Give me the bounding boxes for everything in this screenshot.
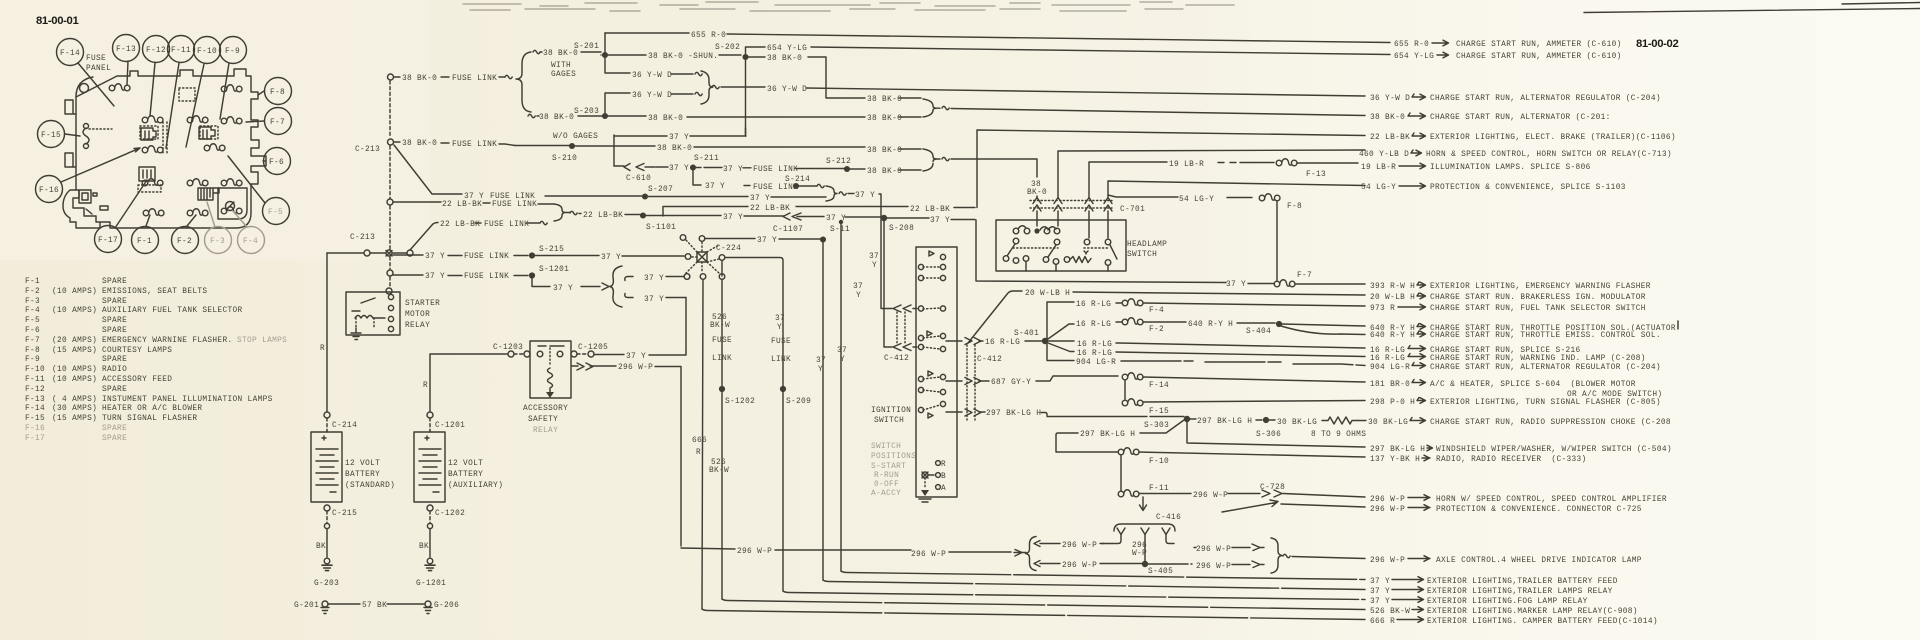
wire F-8 drop to F-7 bbox=[1276, 201, 1278, 281]
svg-text:F-8: F-8 bbox=[1287, 203, 1302, 211]
svg-text:38 BK-0: 38 BK-0 bbox=[648, 115, 683, 123]
connector C-701 bbox=[1030, 201, 1112, 209]
svg-text:38: 38 bbox=[1031, 181, 1041, 189]
wire 22 LB-BK fuse link upper bbox=[393, 202, 554, 204]
svg-text:BK-W: BK-W bbox=[709, 467, 729, 475]
svg-text:EXTERIOR LIGHTING.MARKER LAMP: EXTERIOR LIGHTING.MARKER LAMP RELAY(C-90… bbox=[1427, 608, 1638, 616]
fuse F-11 bbox=[1118, 490, 1139, 497]
wire 37 Y loop under headlamp switch bbox=[976, 220, 1274, 284]
wire 30 BK-LG right bbox=[1358, 420, 1366, 422]
svg-text:PROTECTION & CONVENIENCE. CONN: PROTECTION & CONVENIENCE. CONNECTOR C-72… bbox=[1436, 506, 1642, 514]
svg-text:81-00-02: 81-00-02 bbox=[1636, 38, 1678, 50]
svg-text:S-207: S-207 bbox=[648, 186, 673, 194]
svg-text:EXTERIOR LIGHTING. CAMPER BATT: EXTERIOR LIGHTING. CAMPER BATTERY FEED(C… bbox=[1427, 618, 1658, 626]
svg-text:BK: BK bbox=[419, 543, 429, 551]
svg-text:0-OFF: 0-OFF bbox=[874, 481, 899, 489]
svg-text:37 Y: 37 Y bbox=[669, 165, 689, 173]
svg-text:A/C & HEATER, SPLICE S-604 (B: A/C & HEATER, SPLICE S-604 (BLOWER MOTOR bbox=[1430, 381, 1636, 389]
svg-text:PANEL: PANEL bbox=[86, 65, 111, 73]
svg-text:640 R-Y H: 640 R-Y H bbox=[1370, 332, 1415, 340]
wire 37 Y split lower drop to relay output bbox=[685, 298, 687, 353]
leader F-3 (faded) bbox=[207, 202, 215, 227]
wire 37 Y fuse link S-215 row bbox=[393, 254, 528, 257]
svg-text:F-15: F-15 bbox=[1149, 408, 1169, 416]
splice S-202 bbox=[742, 54, 748, 60]
fuse F-8 bbox=[1259, 194, 1280, 201]
splice S-215 bbox=[529, 252, 535, 258]
svg-text:37 Y: 37 Y bbox=[930, 217, 950, 225]
svg-text:STARTER: STARTER bbox=[405, 300, 440, 308]
svg-text:137 Y-BK H: 137 Y-BK H bbox=[1370, 456, 1420, 464]
circle F-5 bbox=[263, 198, 290, 225]
svg-text:(30 AMPS): (30 AMPS) bbox=[52, 405, 97, 413]
svg-text:ILLUMINATION LAMPS. SPLICE S-8: ILLUMINATION LAMPS. SPLICE S-806 bbox=[1430, 164, 1591, 172]
svg-text:F-9: F-9 bbox=[225, 48, 240, 56]
wire 20 W-LB H bbox=[968, 291, 1365, 343]
svg-text:SPARE: SPARE bbox=[102, 425, 127, 433]
svg-text:SPARE: SPARE bbox=[102, 298, 127, 306]
svg-text:F-7: F-7 bbox=[1297, 272, 1312, 280]
svg-text:BK: BK bbox=[316, 543, 326, 551]
svg-text:S-211: S-211 bbox=[694, 155, 719, 163]
wire 37 Y from C-224 N to S-11 drop bbox=[705, 238, 820, 241]
svg-text:16 R-LG: 16 R-LG bbox=[1370, 355, 1405, 363]
wire BK to ground G-203 bbox=[326, 529, 328, 557]
wire throttle position feed bbox=[1282, 324, 1365, 326]
wire 296 W-P through C-728 bbox=[1139, 493, 1260, 495]
svg-text:526: 526 bbox=[712, 314, 727, 322]
wire F-11 drop to C-416 bbox=[1140, 497, 1147, 511]
svg-text:F-4: F-4 bbox=[25, 307, 40, 315]
svg-text:38 BK-0: 38 BK-0 bbox=[402, 75, 437, 83]
leader F-4 (faded) bbox=[233, 211, 247, 227]
svg-text:37: 37 bbox=[869, 253, 879, 261]
svg-text:81-00-01: 81-00-01 bbox=[36, 15, 78, 27]
wire 296 W-P center drop to S-405 bbox=[1144, 535, 1146, 562]
S-401 branch 4 bbox=[1048, 343, 1365, 357]
svg-text:38 BK-0: 38 BK-0 bbox=[657, 145, 692, 153]
svg-text:F-13: F-13 bbox=[25, 396, 45, 404]
svg-text:FUSE: FUSE bbox=[86, 55, 106, 63]
ground G-1201 bbox=[425, 558, 435, 570]
wire 460 Y-LB D riser bbox=[1058, 150, 1365, 197]
wire BK to ground G-1201 bbox=[429, 529, 431, 557]
terminal C-213 pin 5 bbox=[387, 270, 393, 276]
wire 22 LB-BK fuse link lower bbox=[410, 223, 540, 251]
starter relay ground bbox=[351, 328, 361, 340]
svg-text:F-10: F-10 bbox=[197, 48, 217, 56]
svg-text:37 Y: 37 Y bbox=[644, 275, 664, 283]
svg-text:C-215: C-215 bbox=[332, 510, 357, 518]
splice S-1202 bbox=[719, 386, 725, 392]
panel corner gusset bbox=[76, 77, 93, 97]
svg-text:CHARGE START RUN, SPLICE S-216: CHARGE START RUN, SPLICE S-216 bbox=[1430, 347, 1581, 355]
svg-text:(15 AMPS): (15 AMPS) bbox=[52, 347, 97, 355]
resistor 8 to 9 ohms bbox=[1322, 417, 1358, 424]
svg-text:R: R bbox=[941, 461, 946, 469]
bus wire 526 BK-W marker lamp bbox=[722, 599, 1365, 610]
splice S-212 bbox=[844, 166, 850, 172]
svg-text:C-213: C-213 bbox=[350, 234, 375, 242]
leader F-15 bbox=[65, 134, 80, 136]
dashed row at C-213 pin4 bbox=[327, 252, 364, 254]
svg-text:296 W-P: 296 W-P bbox=[1196, 546, 1231, 554]
svg-text:S-212: S-212 bbox=[826, 158, 851, 166]
svg-text:16 R-LG: 16 R-LG bbox=[1077, 341, 1112, 349]
splice S-405 bbox=[1142, 561, 1148, 567]
svg-text:FUSE LINK: FUSE LINK bbox=[492, 201, 537, 209]
C-224 ring N bbox=[699, 236, 705, 242]
splice S-209 bbox=[780, 386, 786, 392]
svg-text:FUSE: FUSE bbox=[712, 337, 732, 345]
panel interior fuses row 5 bbox=[143, 209, 164, 216]
svg-text:FUSE LINK: FUSE LINK bbox=[452, 75, 497, 83]
svg-text:36 Y-W D: 36 Y-W D bbox=[632, 92, 672, 100]
circle F-4 (faded) bbox=[238, 227, 265, 254]
svg-text:HORN & SPEED CONTROL, HORN SWI: HORN & SPEED CONTROL, HORN SWITCH OR REL… bbox=[1426, 151, 1672, 159]
circle F-13 bbox=[113, 35, 140, 62]
svg-text:AUXILIARY FUEL TANK SELECTOR: AUXILIARY FUEL TANK SELECTOR bbox=[102, 307, 243, 315]
svg-text:F-1: F-1 bbox=[25, 278, 40, 286]
svg-text:HEATER OR A/C BLOWER: HEATER OR A/C BLOWER bbox=[102, 405, 202, 413]
svg-text:904 LG-R: 904 LG-R bbox=[1370, 364, 1410, 372]
svg-text:G-1201: G-1201 bbox=[416, 580, 446, 588]
svg-text:38 BK-0: 38 BK-0 bbox=[539, 114, 574, 122]
svg-text:SPARE: SPARE bbox=[102, 327, 127, 335]
svg-text:F-7: F-7 bbox=[270, 119, 285, 127]
svg-text:38 BK-0: 38 BK-0 bbox=[402, 140, 437, 148]
wire 37 Y jog from S-1201 bbox=[532, 278, 600, 287]
panel interior fuses row 2 bbox=[142, 116, 163, 123]
svg-text:RELAY: RELAY bbox=[533, 427, 558, 435]
S-401 branch 3 bbox=[1048, 341, 1365, 348]
svg-text:OR A/C MODE SWITCH): OR A/C MODE SWITCH) bbox=[1567, 391, 1662, 399]
svg-text:37: 37 bbox=[816, 357, 826, 365]
svg-text:W/O GAGES: W/O GAGES bbox=[553, 133, 598, 141]
svg-text:R: R bbox=[696, 449, 701, 457]
panel relay component 2 bbox=[199, 127, 215, 139]
wire 37 Y to ignition drop bbox=[839, 192, 846, 195]
svg-text:PROTECTION & CONVENIENCE, SPLI: PROTECTION & CONVENIENCE, SPLICE S-1103 bbox=[1430, 184, 1626, 192]
svg-text:S-405: S-405 bbox=[1148, 568, 1173, 576]
svg-text:S-1101: S-1101 bbox=[646, 224, 676, 232]
wire 30 BK-LG to resistor bbox=[1269, 419, 1275, 421]
leader F-5 bbox=[228, 156, 265, 203]
svg-text:20 W-LB H: 20 W-LB H bbox=[1025, 290, 1070, 298]
svg-text:SPARE: SPARE bbox=[102, 278, 127, 286]
svg-text:296 W-P: 296 W-P bbox=[1193, 492, 1228, 500]
svg-text:FUSE LINK: FUSE LINK bbox=[484, 221, 529, 229]
svg-text:526 BK-W: 526 BK-W bbox=[1370, 608, 1410, 616]
wire 37 Y fuse link mid bbox=[696, 167, 706, 169]
svg-text:297 BK-LG H: 297 BK-LG H bbox=[1370, 446, 1425, 454]
wire 38 BK-0 w/o gages bbox=[528, 114, 535, 117]
svg-text:SWITCH: SWITCH bbox=[1127, 251, 1157, 259]
svg-text:F-14: F-14 bbox=[1149, 382, 1169, 390]
svg-text:36 Y-W D: 36 Y-W D bbox=[632, 72, 672, 80]
svg-text:296 W-P: 296 W-P bbox=[737, 548, 772, 556]
C-224 ring E bbox=[719, 255, 725, 261]
svg-text:296 W-P: 296 W-P bbox=[1062, 542, 1097, 550]
svg-text:C-1201: C-1201 bbox=[435, 422, 465, 430]
terminal C-213 pin 6 bbox=[386, 288, 392, 294]
svg-text:R-RUN: R-RUN bbox=[874, 472, 899, 480]
splice S-211 bbox=[690, 164, 696, 170]
svg-text:F-12: F-12 bbox=[146, 47, 166, 55]
svg-text:12 VOLT: 12 VOLT bbox=[345, 460, 380, 468]
svg-text:EXTERIOR LIGHTING, EMERGENCY W: EXTERIOR LIGHTING, EMERGENCY WARNING FLA… bbox=[1430, 283, 1651, 291]
svg-text:FUSE LINK: FUSE LINK bbox=[753, 184, 798, 192]
svg-text:FUSE LINK: FUSE LINK bbox=[464, 273, 509, 281]
svg-text:GAGES: GAGES bbox=[551, 71, 576, 79]
svg-text:F-8: F-8 bbox=[25, 347, 40, 355]
svg-text:MOTOR: MOTOR bbox=[405, 311, 430, 319]
svg-text:F-2: F-2 bbox=[177, 238, 192, 246]
wire 37 Y trailer battery drop bbox=[840, 222, 842, 571]
svg-text:RADIO: RADIO bbox=[102, 366, 127, 374]
svg-text:SWITCH: SWITCH bbox=[871, 443, 901, 451]
svg-text:37 Y: 37 Y bbox=[425, 253, 445, 261]
svg-text:CHARGE START RUN, AMMETER (C-6: CHARGE START RUN, AMMETER (C-610) bbox=[1456, 53, 1622, 61]
svg-text:F-2: F-2 bbox=[25, 288, 40, 296]
circle F-3 (faded) bbox=[205, 227, 232, 254]
leader F-14 bbox=[78, 63, 114, 106]
wire 38 BK-0 from S-212 bbox=[850, 169, 921, 170]
circle F-2 bbox=[172, 227, 199, 254]
brace 2 (38 BK-0 pair collect) bbox=[923, 149, 940, 171]
wire 37 Y split lower bbox=[625, 294, 686, 298]
svg-text:AXLE CONTROL.4 WHEEL DRIVE IND: AXLE CONTROL.4 WHEEL DRIVE INDICATOR LAM… bbox=[1436, 557, 1642, 565]
svg-text:CHARGE START RUN, AMMETER (C-6: CHARGE START RUN, AMMETER (C-610) bbox=[1456, 41, 1622, 49]
splice S-210 bbox=[569, 143, 575, 149]
svg-text:CHARGE START RUN, ALTERNATOR R: CHARGE START RUN, ALTERNATOR REGULATOR (… bbox=[1430, 364, 1661, 372]
wire 54 LG-Y to F-8 bbox=[1108, 195, 1252, 198]
connector C-416 bracket bbox=[1114, 524, 1175, 531]
svg-text:298 P-0 H: 298 P-0 H bbox=[1370, 399, 1415, 407]
splice on 37 Y drop bbox=[820, 236, 826, 242]
svg-text:ACCESSORY: ACCESSORY bbox=[523, 405, 568, 413]
svg-text:F-13: F-13 bbox=[1306, 171, 1326, 179]
splice S-201 bbox=[602, 52, 608, 58]
svg-text:LINK: LINK bbox=[712, 355, 732, 363]
wire 687 GY-Y from ignition bbox=[946, 376, 1118, 381]
fuse F-14 bbox=[1122, 373, 1143, 380]
svg-text:37 Y: 37 Y bbox=[750, 195, 770, 203]
connector C-412 lower dotted bbox=[967, 345, 975, 420]
svg-text:37 Y: 37 Y bbox=[553, 285, 573, 293]
split brace 37 Y bbox=[610, 266, 622, 307]
terminal C-215 bbox=[324, 505, 330, 511]
svg-text:C-412: C-412 bbox=[977, 356, 1002, 364]
svg-text:RELAY: RELAY bbox=[405, 322, 430, 330]
svg-text:G-203: G-203 bbox=[314, 580, 339, 588]
fuse F-4 bbox=[1122, 299, 1143, 306]
S-401 branch 2 to F-2 bbox=[1048, 322, 1122, 339]
svg-text:F-10: F-10 bbox=[25, 366, 45, 374]
wire 640 R-Y H bbox=[1143, 322, 1275, 323]
wire 38 BK-0 -SHUN. bbox=[608, 54, 741, 56]
svg-text:54 LG-Y: 54 LG-Y bbox=[1361, 184, 1396, 192]
svg-text:R: R bbox=[320, 345, 325, 353]
svg-text:640 R-Y H: 640 R-Y H bbox=[1188, 321, 1233, 329]
connector C-412 arrows upper bbox=[893, 305, 917, 312]
circle F-14 bbox=[57, 39, 84, 66]
svg-text:S-303: S-303 bbox=[1144, 422, 1169, 430]
svg-text:654 Y-LG: 654 Y-LG bbox=[767, 45, 807, 53]
svg-text:38 BK-0: 38 BK-0 bbox=[867, 96, 902, 104]
svg-text:C-1203: C-1203 bbox=[493, 344, 523, 352]
svg-text:666 R: 666 R bbox=[1370, 618, 1395, 626]
svg-text:904 LG-R: 904 LG-R bbox=[1076, 359, 1116, 367]
wire 37 Y brace drop to ignition bbox=[881, 308, 892, 310]
C-224 ring S bbox=[700, 274, 706, 280]
leader F-6 bbox=[263, 160, 266, 162]
svg-text:COURTESY LAMPS: COURTESY LAMPS bbox=[102, 347, 172, 355]
splice S-203 bbox=[602, 113, 608, 119]
wire headlamp feed 38 BK-0 bbox=[942, 157, 949, 160]
svg-text:F-17: F-17 bbox=[98, 237, 118, 245]
circle F-10 bbox=[194, 37, 221, 64]
svg-text:687 GY-Y: 687 GY-Y bbox=[991, 379, 1031, 387]
leader F-1 bbox=[146, 215, 150, 226]
ignition position contacts bbox=[922, 472, 928, 478]
bus wire 37 Y fog lamp bbox=[783, 591, 1365, 600]
svg-text:37 Y: 37 Y bbox=[644, 296, 664, 304]
battery 12 volt (standard) bbox=[311, 432, 342, 502]
bus wire 37 Y trailer lamps bbox=[823, 580, 1365, 590]
svg-text:S-404: S-404 bbox=[1246, 328, 1271, 336]
svg-text:37 Y: 37 Y bbox=[626, 353, 646, 361]
wire 296 W-P diagonal to C-725 bbox=[1222, 500, 1365, 512]
top scan artifacts: cut-off print fragments bbox=[463, 2, 1234, 11]
svg-text:ACCESSORY FEED: ACCESSORY FEED bbox=[102, 376, 172, 384]
svg-text:( 4 AMPS): ( 4 AMPS) bbox=[52, 396, 97, 404]
svg-text:F-5: F-5 bbox=[25, 317, 40, 325]
svg-text:FUSE LINK: FUSE LINK bbox=[490, 193, 535, 201]
wire 54 LG-Y riser bbox=[1108, 181, 1365, 197]
svg-text:37 Y: 37 Y bbox=[1370, 588, 1390, 596]
svg-text:655 R-0: 655 R-0 bbox=[691, 32, 726, 40]
terminal C-214 bbox=[324, 412, 330, 418]
wire 22 LB-BK to S-1101 bbox=[570, 211, 577, 214]
svg-text:F-11: F-11 bbox=[171, 47, 191, 55]
fuse F-2 bbox=[1122, 318, 1143, 325]
wire 973 R feed bbox=[1143, 303, 1365, 306]
terminal C-213 pin 3 bbox=[387, 199, 393, 205]
vertical F-10 to F-11 bbox=[1120, 455, 1122, 491]
svg-text:C-214: C-214 bbox=[332, 422, 357, 430]
svg-text:F-1: F-1 bbox=[137, 238, 152, 246]
svg-text:EMISSIONS, SEAT BELTS: EMISSIONS, SEAT BELTS bbox=[102, 288, 207, 296]
connector C-412 arrows lower bbox=[893, 344, 917, 351]
wire 37 Y upper loop bbox=[614, 135, 746, 137]
svg-text:37: 37 bbox=[837, 347, 847, 355]
svg-text:16 R-LG: 16 R-LG bbox=[1076, 321, 1111, 329]
wire 296 W-P from accessory relay bbox=[572, 366, 681, 546]
svg-text:54 LG-Y: 54 LG-Y bbox=[1179, 196, 1214, 204]
splice S-401 bbox=[1042, 338, 1048, 344]
svg-text:16 R-LG: 16 R-LG bbox=[1077, 350, 1112, 358]
svg-text:S-201: S-201 bbox=[574, 43, 599, 51]
svg-text:460 Y-LB D: 460 Y-LB D bbox=[1359, 151, 1409, 159]
svg-text:SPARE: SPARE bbox=[102, 317, 127, 325]
svg-text:S-11: S-11 bbox=[830, 226, 850, 234]
svg-text:Y: Y bbox=[818, 366, 823, 374]
svg-text:296 W-P: 296 W-P bbox=[1062, 562, 1097, 570]
C-224 ring SW bbox=[684, 274, 690, 280]
svg-text:(15 AMPS): (15 AMPS) bbox=[52, 415, 97, 423]
svg-text:S-1201: S-1201 bbox=[539, 266, 569, 274]
svg-text:37 Y: 37 Y bbox=[1226, 281, 1246, 289]
svg-text:296 W-P: 296 W-P bbox=[618, 364, 653, 372]
svg-text:F-7: F-7 bbox=[25, 337, 40, 345]
wire 654 Y-LG feed bbox=[746, 47, 1391, 57]
wire 37 Y from accessory relay bbox=[594, 352, 686, 355]
svg-text:TURN SIGNAL FLASHER: TURN SIGNAL FLASHER bbox=[102, 415, 197, 423]
wire R to standard battery bbox=[326, 253, 328, 412]
svg-text:BK-0: BK-0 bbox=[1027, 189, 1047, 197]
svg-text:22 LB-BK: 22 LB-BK bbox=[910, 206, 950, 214]
svg-text:HEADLAMP: HEADLAMP bbox=[1127, 241, 1167, 249]
accessory safety relay bbox=[530, 341, 571, 398]
panel lighter box bbox=[218, 188, 247, 219]
svg-text:EMERGENCY WARNINE FLASHER.: EMERGENCY WARNINE FLASHER. bbox=[102, 337, 233, 345]
fuse panel outline bbox=[25, 32, 1678, 626]
svg-text:S-210: S-210 bbox=[552, 155, 577, 163]
svg-text:C-213: C-213 bbox=[355, 146, 380, 154]
svg-text:12 VOLT: 12 VOLT bbox=[448, 460, 483, 468]
svg-text:A-ACCY: A-ACCY bbox=[871, 490, 901, 498]
svg-text:FUSE LINK: FUSE LINK bbox=[753, 166, 798, 174]
svg-text:F-11: F-11 bbox=[25, 376, 45, 384]
splice S-214 bbox=[793, 183, 799, 189]
leader F-12 bbox=[150, 63, 155, 116]
svg-text:IGNITION: IGNITION bbox=[871, 407, 911, 415]
svg-text:37 Y: 37 Y bbox=[855, 192, 875, 200]
svg-text:666: 666 bbox=[692, 437, 707, 445]
svg-text:37 Y: 37 Y bbox=[723, 214, 743, 222]
leader F-9 bbox=[220, 63, 229, 119]
ignition switch box bbox=[916, 247, 957, 497]
wire 37 Y fuse link S-207 row bbox=[394, 145, 642, 196]
svg-text:F-17: F-17 bbox=[25, 435, 45, 443]
svg-text:38 BK-0: 38 BK-0 bbox=[867, 147, 902, 155]
svg-text:296 W-P: 296 W-P bbox=[1370, 506, 1405, 514]
svg-text:A: A bbox=[941, 485, 946, 493]
svg-text:181 BR-0: 181 BR-0 bbox=[1370, 381, 1410, 389]
svg-text:19 LB-R: 19 LB-R bbox=[1361, 164, 1396, 172]
wire 38 BK-0 branch to brace 1 top bbox=[748, 57, 921, 98]
svg-text:W-P: W-P bbox=[1132, 550, 1147, 558]
ignition ground bbox=[924, 478, 926, 489]
svg-text:C-1202: C-1202 bbox=[435, 510, 465, 518]
svg-text:38 BK-0 -SHUN.: 38 BK-0 -SHUN. bbox=[648, 53, 718, 61]
panel left edge fuse bbox=[83, 128, 89, 144]
leader F-7 bbox=[246, 121, 264, 122]
svg-text:(10 AMPS): (10 AMPS) bbox=[52, 307, 97, 315]
wire 666 R from C-224 S to camper bus bbox=[702, 279, 703, 609]
wire 298 P-0 H feed bbox=[1143, 401, 1365, 403]
splice S-1101 bbox=[640, 212, 646, 218]
wire 296 W-P bus main bbox=[681, 548, 1022, 553]
S-401 branch 5 904 LG-R bbox=[1047, 344, 1365, 366]
svg-text:INSTUMENT PANEL ILLUMINATION L: INSTUMENT PANEL ILLUMINATION LAMPS bbox=[102, 396, 273, 404]
svg-text:FUSE LINK: FUSE LINK bbox=[464, 253, 509, 261]
svg-text:19 LB-R: 19 LB-R bbox=[1169, 161, 1204, 169]
leader F-17 bbox=[115, 180, 147, 228]
svg-text:37 Y: 37 Y bbox=[425, 273, 445, 281]
svg-text:973 R: 973 R bbox=[1370, 305, 1395, 313]
